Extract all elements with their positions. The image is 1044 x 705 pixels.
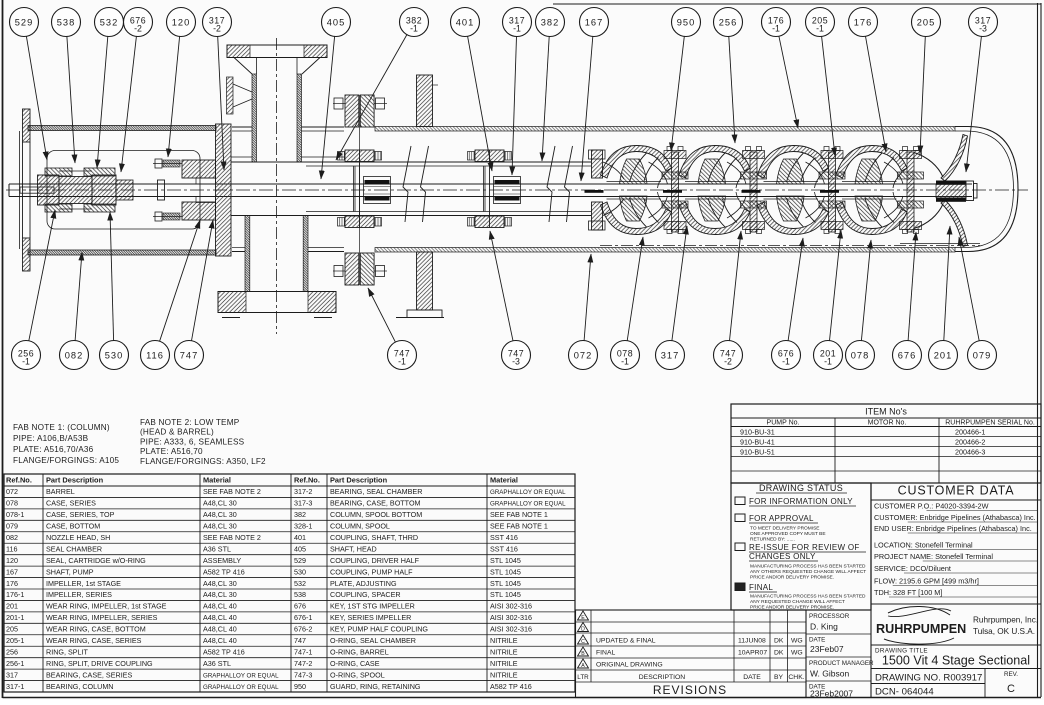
balloon 176-1 (top callout) <box>762 8 799 129</box>
balloon 317-1 (top callout) <box>503 8 532 176</box>
svg-text:COUPLING, SHAFT, THRD: COUPLING, SHAFT, THRD <box>330 533 418 542</box>
svg-text:PLATE, ADJUSTING: PLATE, ADJUSTING <box>330 579 397 588</box>
svg-text:317: 317 <box>661 350 680 360</box>
svg-text:KEY, SERIES IMPELLER: KEY, SERIES IMPELLER <box>330 613 411 622</box>
bowl seat line <box>900 243 980 245</box>
svg-text:A48,CL 40: A48,CL 40 <box>203 602 237 611</box>
svg-text:NITRILE: NITRILE <box>490 659 518 668</box>
svg-text:317-3: 317-3 <box>294 499 312 508</box>
svg-text:-1: -1 <box>398 357 406 367</box>
pump bowl stage 1 (case 078/176 impeller) <box>585 146 689 235</box>
svg-text:CUSTOMER P.O.: P4020-3394-2W: CUSTOMER P.O.: P4020-3394-2W <box>874 502 989 511</box>
svg-text:DK: DK <box>774 638 784 645</box>
svg-text:200466-1: 200466-1 <box>955 428 985 437</box>
shaft collar <box>158 180 165 200</box>
column joint / shaft coupling upper <box>338 150 391 228</box>
balloon 317-2 (top callout) <box>203 8 232 171</box>
svg-text:A48,CL 30: A48,CL 30 <box>203 522 237 531</box>
svg-text:NOZZLE HEAD, SH: NOZZLE HEAD, SH <box>46 533 110 542</box>
pump bowl stage 2 (case 078/176 impeller) <box>663 146 767 235</box>
fab note 2 text <box>140 418 266 466</box>
svg-text:116: 116 <box>6 544 17 553</box>
svg-text:-1: -1 <box>816 24 824 34</box>
svg-text:205: 205 <box>917 17 936 27</box>
svg-text:532: 532 <box>100 17 119 27</box>
svg-text:176: 176 <box>6 579 18 588</box>
svg-text:120: 120 <box>6 556 18 565</box>
balloon 205 (top callout) <box>912 8 941 155</box>
column spool 328-1 walls <box>231 162 591 216</box>
svg-text:SERVICE: DCO/Diluent: SERVICE: DCO/Diluent <box>874 564 951 573</box>
svg-text:CASE, SERIES: CASE, SERIES <box>46 499 96 508</box>
svg-text:IMPELLER, SERIES: IMPELLER, SERIES <box>46 590 112 599</box>
svg-text:405: 405 <box>327 17 346 27</box>
customer data box <box>871 483 1041 698</box>
balloon 382-1 (top callout) <box>336 8 429 161</box>
svg-text:328-1: 328-1 <box>294 522 312 531</box>
svg-text:-3: -3 <box>512 357 520 367</box>
svg-text:PUMP No.: PUMP No. <box>767 420 800 427</box>
balloon 201 (bottom callout) <box>929 226 958 370</box>
motor stand / nozzle head 082 walls <box>28 126 216 256</box>
svg-text:23Feb2007: 23Feb2007 <box>810 689 853 699</box>
svg-text:Material: Material <box>203 476 231 485</box>
drawing number row <box>871 669 1041 698</box>
pump bowl stage 4 (case 078/176 impeller) <box>820 146 924 235</box>
svg-text:530: 530 <box>294 567 306 576</box>
svg-text:317-2: 317-2 <box>294 487 312 496</box>
svg-text:747: 747 <box>180 350 199 360</box>
svg-text:STL 1045: STL 1045 <box>490 579 521 588</box>
svg-text:WG: WG <box>791 638 803 645</box>
svg-text:GRAPHALLOY OR EQUAL: GRAPHALLOY OR EQUAL <box>490 501 566 508</box>
balloon 676-2 (top callout) <box>121 8 153 173</box>
svg-text:950: 950 <box>294 682 306 691</box>
balloon 530 (bottom callout) <box>100 212 129 370</box>
revisions table <box>576 610 807 698</box>
svg-text:676-1: 676-1 <box>294 613 312 622</box>
svg-text:GRAPHALLOY OR EQUAL: GRAPHALLOY OR EQUAL <box>490 489 566 496</box>
svg-text:PROJECT NAME: Stonefell Termin: PROJECT NAME: Stonefell Terminal <box>874 552 993 561</box>
svg-text:SEE FAB NOTE 2: SEE FAB NOTE 2 <box>203 533 261 542</box>
drawing title <box>871 645 1041 668</box>
svg-text:O-RING, SPOOL: O-RING, SPOOL <box>330 670 385 679</box>
barrel 072 top wall <box>232 127 955 132</box>
side vent nozzle <box>227 77 253 114</box>
svg-text:A48,CL 30: A48,CL 30 <box>203 499 237 508</box>
svg-text:BEARING, CASE, SERIES: BEARING, CASE, SERIES <box>46 670 132 679</box>
svg-text:176: 176 <box>854 17 873 27</box>
balloon 405 (top callout) <box>321 8 351 180</box>
svg-text:529: 529 <box>294 556 306 565</box>
svg-text:910-BU-41: 910-BU-41 <box>740 438 775 447</box>
svg-text:NITRILE: NITRILE <box>490 636 518 645</box>
svg-text:PRODUCT MANAGER: PRODUCT MANAGER <box>809 660 874 667</box>
drawing status box <box>731 483 871 610</box>
svg-text:A48,CL 40: A48,CL 40 <box>203 625 237 634</box>
svg-text:A48,CL 40: A48,CL 40 <box>203 613 237 622</box>
svg-text:TDH: 328 FT [100 M]: TDH: 328 FT [100 M] <box>874 588 942 597</box>
column joint / shaft coupling 401 <box>468 150 521 228</box>
svg-text:11JUN08: 11JUN08 <box>738 638 766 645</box>
svg-text:078: 078 <box>851 350 870 360</box>
svg-text:WEAR RING, IMPELLER, 1st STAGE: WEAR RING, IMPELLER, 1st STAGE <box>46 602 167 611</box>
svg-text:538: 538 <box>294 590 306 599</box>
coupling spacer 538 <box>59 171 92 209</box>
svg-text:CUSTOMER DATA: CUSTOMER DATA <box>898 484 1015 498</box>
svg-text:747-2: 747-2 <box>294 659 312 668</box>
shaft end / guard 950 <box>966 181 974 201</box>
svg-text:DRAWING STATUS: DRAWING STATUS <box>759 483 843 493</box>
pipe break symbol left <box>403 146 429 222</box>
svg-text:401: 401 <box>294 533 306 542</box>
svg-text:-1: -1 <box>22 357 30 367</box>
svg-text:FLANGE/FORGINGS: A105: FLANGE/FORGINGS: A105 <box>13 456 119 465</box>
svg-text:O-RING, BARREL: O-RING, BARREL <box>330 647 389 656</box>
svg-text:FAB NOTE 1: (COLUMN): FAB NOTE 1: (COLUMN) <box>13 423 110 432</box>
svg-text:BEARING, CASE, BOTTOM: BEARING, CASE, BOTTOM <box>330 499 421 508</box>
svg-text:D. King: D. King <box>810 622 838 632</box>
coupling guard outline <box>47 151 200 230</box>
ruhrpumpen logo block <box>871 604 1041 644</box>
svg-text:676: 676 <box>294 602 306 611</box>
svg-text:MANUFACTURING PROCESS HAS BEEN: MANUFACTURING PROCESS HAS BEEN STARTED <box>750 564 866 570</box>
coupling driver half 529 <box>38 175 60 205</box>
svg-text:910-BU-31: 910-BU-31 <box>740 428 775 437</box>
svg-text:SST 416: SST 416 <box>490 544 518 553</box>
svg-text:UPDATED & FINAL: UPDATED & FINAL <box>596 638 656 645</box>
svg-text:747-3: 747-3 <box>294 670 312 679</box>
svg-text:405: 405 <box>294 544 306 553</box>
coupling rings upper <box>84 168 115 212</box>
svg-text:RE-ISSUE FOR REVIEW OF: RE-ISSUE FOR REVIEW OF <box>749 543 860 552</box>
svg-text:BEARING, SEAL CHAMBER: BEARING, SEAL CHAMBER <box>330 487 422 496</box>
svg-text:23Feb07: 23Feb07 <box>810 644 844 654</box>
svg-text:-1: -1 <box>410 24 418 34</box>
svg-text:WEAR RING, CASE, BOTTOM: WEAR RING, CASE, BOTTOM <box>46 625 146 634</box>
svg-text:KEY, 1ST STG IMPELLER: KEY, 1ST STG IMPELLER <box>330 602 415 611</box>
svg-text:167: 167 <box>6 567 18 576</box>
svg-text:ASSEMBLY: ASSEMBLY <box>203 556 241 565</box>
svg-text:ORIGINAL DRAWING: ORIGINAL DRAWING <box>596 662 663 669</box>
svg-text:WEAR RING, IMPELLER, SERIES: WEAR RING, IMPELLER, SERIES <box>46 613 158 622</box>
svg-text:NITRILE: NITRILE <box>490 670 518 679</box>
svg-text:COLUMN, SPOOL: COLUMN, SPOOL <box>330 522 390 531</box>
svg-text:KEY, PUMP HALF COUPLING: KEY, PUMP HALF COUPLING <box>330 625 428 634</box>
svg-text:529: 529 <box>15 17 34 27</box>
bottom column flange <box>218 292 336 318</box>
svg-text:COUPLING, DRIVER HALF: COUPLING, DRIVER HALF <box>330 556 420 565</box>
balloon 747-1 (bottom callout) <box>368 288 417 370</box>
balloon 256-1 (bottom callout) <box>12 210 56 370</box>
svg-text:IMPELLER, 1st STAGE: IMPELLER, 1st STAGE <box>46 579 121 588</box>
svg-text:082: 082 <box>6 533 18 542</box>
discharge nozzle top flange <box>227 45 327 74</box>
svg-text:MANUFACTURING PROCESS HAS BEEN: MANUFACTURING PROCESS HAS BEEN STARTED <box>750 594 866 600</box>
svg-text:PLATE: A516,70/A36: PLATE: A516,70/A36 <box>13 445 94 454</box>
balloon 317 (bottom callout) <box>656 226 688 370</box>
svg-text:WEAR RING, CASE, SERIES: WEAR RING, CASE, SERIES <box>46 636 142 645</box>
adjusting plate 532 <box>116 180 133 200</box>
barrel 072 bottom wall <box>232 248 955 253</box>
svg-text:201-1: 201-1 <box>6 613 24 622</box>
shaft 167/405 <box>9 184 972 197</box>
svg-text:RETURNED BY: ......: RETURNED BY: ...... <box>750 536 795 542</box>
svg-text:O-RING, CASE: O-RING, CASE <box>330 659 380 668</box>
svg-text:RING, SPLIT, DRIVE COUPLING: RING, SPLIT, DRIVE COUPLING <box>46 659 153 668</box>
svg-text:-1: -1 <box>772 24 780 34</box>
svg-text:LTR: LTR <box>577 674 589 681</box>
seal gland blocks <box>182 160 216 220</box>
balloon 747-2 (bottom callout) <box>714 231 743 370</box>
svg-text:176-1: 176-1 <box>6 590 24 599</box>
svg-text:PIPE: A106,B/A53B: PIPE: A106,B/A53B <box>13 434 89 443</box>
svg-text:ONE APPROVED COPY MUST BE: ONE APPROVED COPY MUST BE <box>750 531 826 537</box>
svg-text:Part Description: Part Description <box>46 476 104 485</box>
bottom case / suction cone 079 <box>914 135 977 247</box>
balloon 676-1 (bottom callout) <box>772 238 804 370</box>
svg-text:-2: -2 <box>213 24 221 34</box>
svg-text:382: 382 <box>294 510 306 519</box>
svg-text:SST 416: SST 416 <box>490 533 518 542</box>
svg-text:FINAL: FINAL <box>596 650 615 657</box>
svg-text:A36 STL: A36 STL <box>203 659 231 668</box>
approvals column processor/date <box>806 610 874 699</box>
svg-text:072: 072 <box>6 487 18 496</box>
svg-text:SEAL CHAMBER: SEAL CHAMBER <box>46 544 102 553</box>
balloon 747 (bottom callout) <box>175 220 214 370</box>
discharge pipe walls <box>252 58 302 163</box>
svg-text:C: C <box>581 639 585 645</box>
svg-text:205-1: 205-1 <box>6 636 24 645</box>
seal chamber 116 / head flange <box>216 124 232 256</box>
svg-text:532: 532 <box>294 579 306 588</box>
svg-text:REV.: REV. <box>1004 671 1018 678</box>
svg-text:-1: -1 <box>824 357 832 367</box>
svg-text:950: 950 <box>677 17 696 27</box>
svg-text:SEE FAB NOTE 1: SEE FAB NOTE 1 <box>490 522 548 531</box>
svg-text:AISI 302-316: AISI 302-316 <box>490 602 532 611</box>
svg-text:201: 201 <box>934 350 953 360</box>
svg-text:DK: DK <box>774 650 784 657</box>
svg-text:GRAPHALLOY OR EQUAL: GRAPHALLOY OR EQUAL <box>203 672 279 679</box>
svg-text:200466-2: 200466-2 <box>955 438 985 447</box>
balloon 401 (top callout) <box>451 8 493 172</box>
svg-text:STL 1045: STL 1045 <box>490 567 521 576</box>
balloon 317-3 (top callout) <box>966 8 998 173</box>
suction pipe bottom <box>245 216 308 292</box>
balloon 079 (bottom callout) <box>959 237 997 370</box>
svg-text:676: 676 <box>898 350 917 360</box>
svg-text:078: 078 <box>6 499 18 508</box>
svg-text:256-1: 256-1 <box>6 659 24 668</box>
balloon 256 (top callout) <box>714 8 743 144</box>
svg-text:079: 079 <box>973 350 992 360</box>
balloon 116 (bottom callout) <box>141 220 201 370</box>
svg-text:ANY REQUESTED CHANGE WILL AFFE: ANY REQUESTED CHANGE WILL AFFECT <box>750 599 845 605</box>
balloon 529 (top callout) <box>10 8 48 161</box>
svg-text:PIPE: A333, 6, SEAMLESS: PIPE: A333, 6, SEAMLESS <box>140 437 245 446</box>
balloon 120 (top callout) <box>167 8 196 158</box>
svg-text:SHAFT, HEAD: SHAFT, HEAD <box>330 544 377 553</box>
svg-text:TO MEET DELIVERY PROMISE: TO MEET DELIVERY PROMISE <box>750 526 820 532</box>
svg-text:AISI 302-316: AISI 302-316 <box>490 613 532 622</box>
svg-text:FAB NOTE 2: LOW TEMP: FAB NOTE 2: LOW TEMP <box>140 418 240 427</box>
svg-text:B: B <box>581 651 585 657</box>
svg-text:079: 079 <box>6 522 18 531</box>
svg-text:1500 Vit 4 Stage Sectional: 1500 Vit 4 Stage Sectional <box>882 654 1030 668</box>
svg-text:DATE: DATE <box>743 674 761 681</box>
svg-text:DCN- 064044: DCN- 064044 <box>875 687 934 698</box>
fab note 1 text <box>13 423 119 465</box>
svg-text:A48,CL 30: A48,CL 30 <box>203 510 237 519</box>
svg-text:205: 205 <box>6 625 18 634</box>
balloon 532 (top callout) <box>95 8 124 169</box>
balloon 382 (top callout) <box>536 8 565 162</box>
centerline pump axis <box>6 189 1028 191</box>
svg-text:A36 STL: A36 STL <box>203 544 231 553</box>
svg-text:STL 1045: STL 1045 <box>490 556 521 565</box>
barrel rounded end cap <box>955 127 1018 252</box>
svg-text:CASE, SERIES, TOP: CASE, SERIES, TOP <box>46 510 115 519</box>
svg-text:C: C <box>1007 683 1015 695</box>
svg-text:W. Gibson: W. Gibson <box>810 669 849 679</box>
svg-text:FOR INFORMATION ONLY: FOR INFORMATION ONLY <box>749 497 853 506</box>
svg-text:120: 120 <box>172 17 191 27</box>
svg-text:GUARD, RING, RETAINING: GUARD, RING, RETAINING <box>330 682 421 691</box>
item numbers table <box>731 404 1041 483</box>
balloon 176 (top callout) <box>849 8 887 153</box>
balloon 950 (top callout) <box>671 8 701 152</box>
svg-text:167: 167 <box>585 17 604 27</box>
svg-text:Ruhrpumpen, Inc.: Ruhrpumpen, Inc. <box>973 616 1038 625</box>
barrel to head bolted joint top <box>333 95 387 127</box>
svg-text:BARREL: BARREL <box>46 487 75 496</box>
seal cartridge 120 gland studs <box>153 159 182 221</box>
svg-text:FINAL: FINAL <box>749 583 773 592</box>
svg-text:Ref.No.: Ref.No. <box>294 476 320 485</box>
svg-text:Part Description: Part Description <box>330 476 388 485</box>
svg-text:AISI 302-316: AISI 302-316 <box>490 625 532 634</box>
balloon 078-1 (bottom callout) <box>611 237 644 370</box>
balloon 205-1 (top callout) <box>806 8 836 157</box>
svg-text:CHANGES ONLY: CHANGES ONLY <box>749 552 816 561</box>
svg-text:COUPLING, SPACER: COUPLING, SPACER <box>330 590 401 599</box>
parts list table <box>4 474 575 692</box>
svg-text:078-1: 078-1 <box>6 510 24 519</box>
svg-text:A582 TP 416: A582 TP 416 <box>203 567 245 576</box>
svg-text:SEE FAB NOTE 2: SEE FAB NOTE 2 <box>203 487 261 496</box>
svg-text:WG: WG <box>791 650 803 657</box>
svg-text:E: E <box>581 615 585 621</box>
head horizontal bores <box>231 157 344 216</box>
svg-text:FOR APPROVAL: FOR APPROVAL <box>749 514 814 523</box>
svg-text:PRICE AND/OR DELIVERY PROMISE.: PRICE AND/OR DELIVERY PROMISE. <box>750 604 834 610</box>
svg-text:747-1: 747-1 <box>294 647 312 656</box>
svg-text:676-2: 676-2 <box>294 625 312 634</box>
svg-text:072: 072 <box>574 350 593 360</box>
balloon 078 (bottom callout) <box>846 240 875 370</box>
svg-text:O-RING, SEAL CHAMBER: O-RING, SEAL CHAMBER <box>330 636 416 645</box>
svg-text:MOTOR No.: MOTOR No. <box>868 420 907 427</box>
svg-text:530: 530 <box>105 350 124 360</box>
svg-text:317: 317 <box>6 670 18 679</box>
svg-text:PROCESSOR: PROCESSOR <box>809 613 850 620</box>
svg-text:SEAL, CARTRIDGE w/O-RING: SEAL, CARTRIDGE w/O-RING <box>46 556 146 565</box>
svg-text:10APR07: 10APR07 <box>738 650 767 657</box>
svg-text:A: A <box>581 663 585 669</box>
pipe break symbol right <box>547 146 573 222</box>
svg-text:-2: -2 <box>724 357 732 367</box>
svg-text:256: 256 <box>719 17 738 27</box>
svg-text:910-BU-51: 910-BU-51 <box>740 448 775 457</box>
svg-text:COUPLING, PUMP HALF: COUPLING, PUMP HALF <box>330 567 413 576</box>
svg-text:317-1: 317-1 <box>6 682 24 691</box>
svg-text:GRAPHALLOY OR EQUAL: GRAPHALLOY OR EQUAL <box>203 684 279 691</box>
svg-text:RING, SPLIT: RING, SPLIT <box>46 647 89 656</box>
balloon 747-3 (bottom callout) <box>490 231 531 370</box>
svg-text:Ref.No.: Ref.No. <box>6 476 32 485</box>
svg-text:-3: -3 <box>979 24 987 34</box>
motor mounting flange plate <box>20 109 31 271</box>
svg-text:-1: -1 <box>782 357 790 367</box>
svg-text:BY: BY <box>774 674 784 681</box>
svg-text:DRAWING NO. R003917: DRAWING NO. R003917 <box>875 673 982 684</box>
svg-text:538: 538 <box>57 17 76 27</box>
svg-text:REVISIONS: REVISIONS <box>653 683 727 697</box>
svg-text:Material: Material <box>490 476 518 485</box>
svg-text:A582 TP 416: A582 TP 416 <box>490 682 532 691</box>
svg-text:ANY OTHERS REQUESTED CHANGE WI: ANY OTHERS REQUESTED CHANGE WILL AFFECT <box>750 569 866 575</box>
svg-text:(HEAD & BARREL): (HEAD & BARREL) <box>140 428 214 437</box>
svg-text:A48,CL 40: A48,CL 40 <box>203 636 237 645</box>
svg-text:DATE: DATE <box>809 637 825 644</box>
svg-text:116: 116 <box>146 350 164 360</box>
svg-text:PRICE AND/OR DELIVERY PROMISE.: PRICE AND/OR DELIVERY PROMISE. <box>750 574 834 580</box>
svg-text:NITRILE: NITRILE <box>490 647 518 656</box>
coupling pump half 530 <box>92 175 116 205</box>
svg-text:Tulsa, OK U.S.A.: Tulsa, OK U.S.A. <box>973 627 1035 636</box>
svg-text:END USER: Enbridge Pipelines (: END USER: Enbridge Pipelines (Athabasca)… <box>874 524 1032 533</box>
svg-text:D: D <box>581 627 585 633</box>
svg-text:A48,CL 30: A48,CL 30 <box>203 590 237 599</box>
balloon 538 (top callout) <box>52 8 81 164</box>
svg-text:-2: -2 <box>134 24 142 34</box>
svg-text:ITEM No's: ITEM No's <box>865 407 907 417</box>
svg-text:BEARING, COLUMN: BEARING, COLUMN <box>46 682 114 691</box>
svg-text:DESCRIPTION: DESCRIPTION <box>639 674 686 681</box>
balloon 676 (bottom callout) <box>893 232 922 370</box>
svg-text:A582 TP 416: A582 TP 416 <box>203 647 245 656</box>
svg-text:CASE, BOTTOM: CASE, BOTTOM <box>46 522 100 531</box>
svg-text:COLUMN, SPOOL BOTTOM: COLUMN, SPOOL BOTTOM <box>330 510 422 519</box>
pump bowl stage 3 (case 078/176 impeller) <box>742 146 846 235</box>
svg-text:-1: -1 <box>513 24 521 34</box>
svg-text:CUSTOMER: Enbridge Pipelines (: CUSTOMER: Enbridge Pipelines (Athabasca)… <box>874 513 1036 522</box>
svg-text:256: 256 <box>6 647 18 656</box>
svg-text:401: 401 <box>456 17 475 27</box>
svg-text:FLOW: 2195.6 GPM [499 m3/hr]: FLOW: 2195.6 GPM [499 m3/hr] <box>874 577 979 586</box>
svg-text:CHK.: CHK. <box>788 674 804 681</box>
svg-text:A48,CL 30: A48,CL 30 <box>203 579 237 588</box>
balloon 167 (top callout) <box>580 8 609 182</box>
svg-text:PLATE: A516,70: PLATE: A516,70 <box>140 447 203 456</box>
svg-text:STL 1045: STL 1045 <box>490 590 521 599</box>
svg-text:382: 382 <box>541 17 560 27</box>
balloon 201-1 (bottom callout) <box>814 230 843 370</box>
svg-text:LOCATION: Stonefell Terminal: LOCATION: Stonefell Terminal <box>874 541 973 550</box>
svg-text:200466-3: 200466-3 <box>955 448 985 457</box>
